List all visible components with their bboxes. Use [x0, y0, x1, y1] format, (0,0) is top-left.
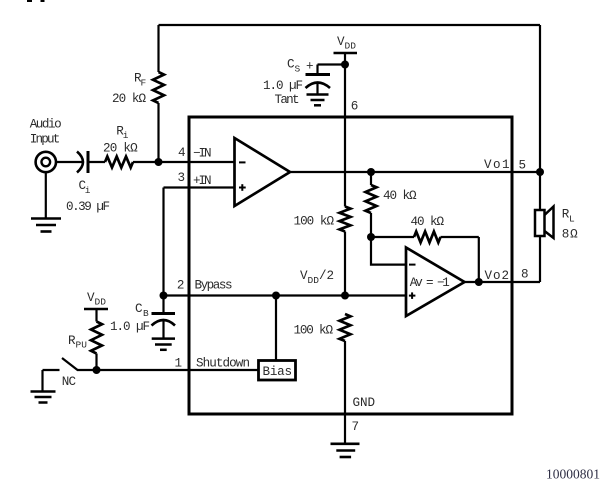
svg-text:1: 1 [175, 356, 183, 370]
pin label Vo2 [485, 269, 510, 283]
svg-text:C: C [135, 302, 143, 316]
wire: RPU to shutdown node [95, 354, 97, 371]
ground (CS) [307, 95, 329, 106]
pin number 3 [178, 171, 186, 185]
label Av = -1 [410, 276, 450, 290]
svg-text:+: + [306, 60, 314, 74]
svg-text:Tant: Tant [275, 93, 300, 107]
wire: bypass rail pin2 to VDD/2 node [164, 294, 346, 296]
wire: right feedback drop x=540 to Vo1 [539, 25, 541, 172]
capacitor Ci [77, 151, 88, 173]
op-amp U1A [235, 138, 291, 206]
wire: pin 1 shutdown to bias [97, 369, 259, 371]
capacitor CB [152, 314, 176, 326]
wire: Vo1 output rail [290, 171, 540, 173]
node: VDD / CS tap [341, 61, 349, 69]
label VDD/2 [300, 269, 334, 286]
label Tant [275, 93, 300, 107]
value label RF 20 k [112, 92, 146, 106]
label Audio Input [30, 118, 62, 147]
op-amp U1B plus marker [409, 292, 416, 299]
wire: speaker bottom lead to Vo2 [539, 236, 541, 282]
pin label +IN [193, 174, 212, 188]
wire: VDD bar to node [344, 53, 346, 65]
switch S1 arm [62, 358, 97, 370]
power rail VDD bar (top) [334, 52, 358, 54]
wire: 40k vertical top lead [370, 172, 372, 185]
wire: CS to ground [316, 84, 318, 95]
resistor 40k vertical body [366, 185, 377, 213]
svg-text:B: B [143, 308, 149, 319]
label Ci [79, 179, 91, 196]
wire: feedback drop to Vo2 [478, 237, 480, 282]
svg-text:i: i [123, 130, 129, 141]
label VDD left [87, 291, 106, 308]
wire: jack to Ci [56, 161, 83, 163]
svg-text:NC: NC [62, 375, 77, 389]
wire: node to 40k horizontal [371, 236, 414, 238]
wire: pin 3 +IN horizontal [164, 186, 235, 188]
resistor RPU body [91, 322, 102, 354]
wire: +IN drop to bypass node [162, 188, 164, 296]
svg-text:S: S [295, 64, 301, 75]
svg-text:Av = −1: Av = −1 [410, 276, 450, 290]
svg-text:DD: DD [95, 297, 107, 308]
wire: Vo2 output [465, 281, 541, 283]
pin label -IN [193, 147, 212, 161]
svg-text:Bypass: Bypass [195, 278, 233, 292]
svg-text:Bias: Bias [263, 365, 293, 379]
svg-text:40 kΩ: 40 kΩ [411, 215, 445, 229]
svg-text:7: 7 [352, 420, 360, 434]
node: Vo2 feedback junction [475, 278, 483, 286]
ground (audio jack) [31, 219, 61, 232]
svg-text:100 kΩ: 100 kΩ [294, 324, 334, 338]
IC package box U1 [189, 117, 512, 414]
svg-text:Shutdown: Shutdown [196, 357, 250, 371]
svg-text:3: 3 [178, 171, 186, 185]
pin number 7 [352, 420, 360, 434]
wire: op2 inverting input [371, 237, 406, 265]
svg-text:1.0 µF: 1.0 µF [263, 79, 303, 93]
value label 8 ohm [562, 228, 578, 242]
svg-text:8: 8 [521, 268, 529, 282]
pin number 4 [178, 146, 186, 160]
wire: pin 7 to ground [344, 414, 346, 444]
pin label Bypass [195, 278, 233, 292]
pin number 8 [521, 268, 529, 282]
wire: 100k to VDD/2 node [344, 232, 346, 296]
svg-text:0.39 µF: 0.39 µF [66, 200, 110, 214]
op-amp U1B minus marker [409, 264, 416, 266]
label RPU [68, 334, 87, 351]
label Bias [263, 365, 293, 379]
svg-text:Input: Input [30, 132, 61, 146]
wire: 40k vertical bottom lead [370, 213, 372, 237]
wire: VDD/2 node to op2 plus input [345, 294, 406, 296]
node: 40k tap on Vo1 [367, 168, 375, 176]
svg-text:5: 5 [519, 159, 527, 173]
svg-text:20 kΩ: 20 kΩ [103, 142, 138, 156]
bias block [259, 361, 296, 381]
wire: Ci to Ri [88, 161, 105, 163]
svg-text:4: 4 [178, 146, 186, 160]
svg-text:Vo2: Vo2 [485, 269, 510, 283]
wire: CB to ground [162, 321, 164, 339]
op-amp U1A plus marker [239, 184, 246, 191]
svg-text:i: i [85, 185, 91, 196]
svg-text:8 Ω: 8 Ω [562, 228, 578, 242]
label CS [287, 58, 301, 75]
label NC [62, 375, 77, 389]
ground (pin 7) [331, 444, 360, 457]
resistor 100k upper body [340, 207, 351, 232]
resistor RF body [153, 72, 164, 103]
svg-text:−IN: −IN [193, 147, 212, 161]
value label Ri 20 k [103, 142, 138, 156]
wire: RF bottom lead to -IN node [157, 103, 159, 162]
svg-text:PU: PU [76, 340, 88, 351]
label Ri [116, 125, 129, 141]
svg-text:1.0 µF: 1.0 µF [110, 320, 150, 334]
resistor 40k horizontal body [414, 232, 441, 243]
wire: 40k horizontal to feedback drop [441, 236, 479, 238]
node: Vo1 / feedback junction [536, 168, 544, 176]
node: shutdown / switch junction [93, 366, 101, 374]
svg-text:10000801: 10000801 [546, 467, 600, 482]
svg-text:6: 6 [351, 100, 359, 114]
op-amp U1A minus marker [239, 161, 246, 163]
label RL [562, 208, 575, 225]
svg-text:100 kΩ: 100 kΩ [294, 215, 335, 229]
svg-text:40 kΩ: 40 kΩ [383, 189, 417, 203]
switch NC contact [43, 369, 60, 371]
label RF [134, 72, 147, 89]
wire: VDD node to CS [318, 63, 346, 65]
value label CB 1.0 uF [110, 320, 150, 334]
pin label Vo1 [484, 158, 510, 172]
value label 40 k vertical [383, 189, 417, 203]
svg-text:/2: /2 [319, 269, 334, 283]
plus marker CS [306, 60, 314, 74]
pin number 6 [351, 100, 359, 114]
svg-text:GND: GND [353, 396, 376, 410]
node: between 40k resistors [367, 233, 375, 241]
svg-text:DD: DD [308, 275, 320, 286]
svg-text:+IN: +IN [193, 174, 212, 188]
svg-text:20 kΩ: 20 kΩ [112, 92, 146, 106]
cropped text fragment top-left [27, 0, 45, 2]
value label 40 k horizontal [411, 215, 445, 229]
svg-text:Audio: Audio [30, 118, 62, 132]
wire: speaker top lead [539, 172, 541, 210]
wire: CB top lead [162, 296, 164, 314]
node: bias tap [272, 292, 280, 300]
svg-text:2: 2 [177, 278, 185, 292]
wire: bias block to bypass rail [275, 296, 277, 361]
wire: 100k lower to GND pin 7 [344, 341, 346, 414]
op-amp U1B Av=-1 [406, 248, 465, 317]
wire: Ri to -IN node, pin 4 into op-amp [133, 161, 235, 163]
wire: jack to ground [45, 172, 47, 218]
resistor Ri body [105, 157, 133, 168]
wire: VDD bar to RPU [95, 309, 97, 322]
document number 10000801 [546, 467, 600, 482]
label VDD top [337, 35, 356, 52]
svg-text:Vo1: Vo1 [484, 158, 510, 172]
ground (CB) [152, 339, 175, 350]
resistor 100k lower body [340, 314, 351, 341]
pin number 2 [177, 278, 185, 292]
wire: CS top lead [316, 65, 318, 75]
label CB [135, 302, 149, 319]
value label CS 1.0 uF [263, 79, 303, 93]
value label Ci 0.39 uF [66, 200, 110, 214]
wire: RF top lead from rail [157, 25, 159, 72]
speaker RL [535, 207, 554, 239]
node: bypass / CB junction [160, 292, 168, 300]
pin label Shutdown [196, 357, 250, 371]
svg-text:DD: DD [345, 41, 357, 52]
pin number 1 [175, 356, 183, 370]
power rail VDD bar (left) [84, 308, 108, 310]
svg-text:L: L [569, 214, 575, 225]
value label 100 k upper [294, 215, 335, 229]
node: -IN junction [155, 158, 163, 166]
node: VDD/2 junction [341, 292, 349, 300]
wire: pin 6 VDD drop into IC [344, 65, 346, 207]
capacitor CS [306, 75, 331, 89]
ground (NC) [31, 392, 56, 403]
svg-text:F: F [141, 78, 147, 89]
pin label GND [353, 396, 376, 410]
connector J1 audio input jack [36, 152, 56, 172]
value label 100 k lower [294, 324, 334, 338]
wire: NC contact to ground [41, 370, 43, 392]
pin number 5 [519, 159, 527, 173]
wire: top feedback rail y=25 [159, 24, 541, 26]
